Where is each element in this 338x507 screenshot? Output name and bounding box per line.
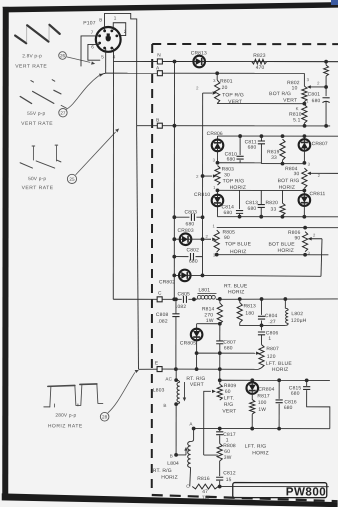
wire CR802 cathode to R806 wiper return bbox=[202, 274, 321, 277]
connector P107 pins bbox=[103, 29, 106, 32]
svg-text:R808: R808 bbox=[223, 443, 236, 449]
svg-text:1W: 1W bbox=[258, 407, 266, 413]
page border frame top bbox=[2, 2, 338, 13]
wire row A bbox=[106, 72, 158, 74]
svg-text:C812: C812 bbox=[223, 470, 236, 476]
wiper of R806 and return loop bbox=[310, 238, 323, 240]
wire A down to L804 bbox=[193, 429, 195, 440]
wire row E bbox=[138, 368, 157, 370]
svg-text:B: B bbox=[170, 454, 173, 459]
wire pin1 row of R/G horiz block bbox=[217, 189, 304, 191]
svg-text:90: 90 bbox=[224, 235, 230, 241]
svg-text:C801: C801 bbox=[308, 92, 321, 98]
page border frame left bbox=[2, 7, 9, 498]
svg-text:1: 1 bbox=[268, 336, 271, 342]
svg-text:.27: .27 bbox=[268, 319, 275, 325]
svg-text:CR805: CR805 bbox=[180, 341, 196, 347]
svg-text:CR807: CR807 bbox=[312, 141, 328, 147]
wire bottom row of R/G horiz section bbox=[217, 216, 338, 218]
svg-text:R806: R806 bbox=[288, 230, 301, 236]
svg-text:680: 680 bbox=[224, 210, 233, 216]
PW800 label box bbox=[233, 483, 327, 498]
svg-text:C806: C806 bbox=[266, 330, 279, 336]
node junction on row N bbox=[173, 60, 177, 64]
svg-text:680: 680 bbox=[248, 145, 257, 151]
svg-text:C815: C815 bbox=[289, 385, 302, 391]
svg-text:30: 30 bbox=[294, 171, 300, 177]
wire bottom row of blue horiz section bbox=[217, 254, 329, 256]
svg-text:R817: R817 bbox=[257, 393, 270, 399]
svg-text:R809: R809 bbox=[224, 383, 237, 389]
svg-text:120µH: 120µH bbox=[291, 318, 307, 324]
svg-text:HORIZ RATE: HORIZ RATE bbox=[48, 423, 83, 429]
svg-text:C816: C816 bbox=[284, 399, 297, 405]
svg-text:LFT.: LFT. bbox=[224, 396, 235, 402]
svg-text:25: 25 bbox=[69, 177, 75, 182]
svg-text:PW800: PW800 bbox=[286, 485, 327, 498]
svg-text:HORIZ: HORIZ bbox=[230, 249, 247, 255]
waveform 26 sawtooth 2.8V p-p vert rate bbox=[15, 25, 60, 44]
svg-text:680: 680 bbox=[227, 157, 236, 163]
svg-text:280V p-p: 280V p-p bbox=[55, 413, 76, 419]
svg-text:1W: 1W bbox=[206, 318, 214, 324]
wire top row of blue horiz section bbox=[217, 227, 338, 229]
svg-text:VERT: VERT bbox=[283, 98, 297, 104]
PW800 board dashed border bottom bbox=[152, 495, 338, 501]
svg-text:R823: R823 bbox=[253, 53, 266, 59]
wire top row of R/G horiz section bbox=[218, 135, 338, 137]
svg-text:L804: L804 bbox=[167, 461, 179, 467]
svg-text:R803: R803 bbox=[222, 167, 235, 173]
svg-text:90: 90 bbox=[295, 235, 301, 241]
svg-text:VERT: VERT bbox=[228, 99, 242, 105]
svg-text:270: 270 bbox=[204, 312, 213, 318]
svg-text:2.8V p-p: 2.8V p-p bbox=[22, 53, 42, 59]
wire row C continue bbox=[216, 298, 338, 301]
adjustment arrow of L803 bbox=[183, 382, 185, 398]
svg-text:C803: C803 bbox=[185, 210, 198, 216]
svg-text:7: 7 bbox=[91, 30, 94, 35]
wire pin B to terminal B via top box and down to terminal E bbox=[104, 13, 136, 125]
svg-text:R/G: R/G bbox=[224, 402, 234, 408]
svg-text:B: B bbox=[163, 403, 166, 408]
svg-text:B: B bbox=[156, 117, 159, 123]
svg-text:680: 680 bbox=[186, 221, 195, 227]
svg-text:100: 100 bbox=[258, 400, 267, 406]
svg-text:5: 5 bbox=[101, 54, 104, 59]
svg-text:CR802: CR802 bbox=[159, 279, 175, 285]
svg-text:P107: P107 bbox=[83, 20, 96, 26]
svg-text:R802: R802 bbox=[287, 80, 300, 86]
svg-text:L803: L803 bbox=[153, 387, 165, 393]
svg-text:C804: C804 bbox=[265, 313, 278, 319]
svg-text:55V p-p: 55V p-p bbox=[27, 111, 45, 117]
svg-text:680: 680 bbox=[224, 345, 233, 351]
svg-text:27: 27 bbox=[60, 110, 66, 115]
svg-text:180: 180 bbox=[245, 311, 254, 317]
svg-text:50V p-p: 50V p-p bbox=[28, 176, 46, 182]
wire row C bbox=[113, 298, 157, 300]
svg-text:3W: 3W bbox=[224, 455, 232, 461]
potentiometer R804 BOT R/G HORIZ bbox=[302, 168, 307, 188]
wire left rail taps bbox=[172, 215, 176, 219]
svg-text:TOP R/G: TOP R/G bbox=[223, 178, 245, 184]
svg-text:B: B bbox=[99, 17, 102, 22]
svg-text:680: 680 bbox=[312, 98, 321, 104]
callout circle 26 bbox=[59, 52, 67, 60]
svg-text:R805: R805 bbox=[223, 230, 236, 236]
svg-text:680: 680 bbox=[248, 206, 257, 212]
wire pin 5 down to row A bbox=[105, 48, 107, 73]
wiper of R807 from CR805 lead bbox=[197, 352, 256, 354]
wiper of R802 bbox=[308, 86, 326, 88]
svg-text:VERT: VERT bbox=[190, 382, 204, 388]
svg-text:HORIZ: HORIZ bbox=[272, 367, 289, 373]
svg-text:C808: C808 bbox=[156, 312, 169, 318]
svg-text:C: C bbox=[186, 484, 190, 489]
potentiometer R809 LFT R/G VERT bbox=[219, 369, 221, 384]
left vertical rail from N to C row bbox=[173, 62, 175, 300]
wiper of R805 bbox=[203, 238, 212, 240]
potentiometer R803 TOP R/G HORIZ bbox=[215, 166, 220, 186]
svg-text:L802: L802 bbox=[291, 311, 303, 317]
wiper of R809 bbox=[204, 391, 211, 455]
svg-text:R807: R807 bbox=[266, 346, 279, 352]
svg-text:HORIZ: HORIZ bbox=[228, 289, 245, 295]
svg-text:VERT RATE: VERT RATE bbox=[21, 121, 53, 127]
svg-text:47: 47 bbox=[202, 489, 208, 495]
svg-text:33: 33 bbox=[271, 155, 277, 161]
wire row 380 branch bbox=[220, 379, 330, 381]
callout arrow from 26 to connector bbox=[67, 57, 91, 63]
adjustment arrow of L804 bbox=[185, 450, 187, 455]
blue corner mark bbox=[331, 0, 338, 5]
wiper bus right column bbox=[201, 93, 203, 275]
wire pin 6 stub bbox=[88, 44, 100, 60]
svg-text:6: 6 bbox=[91, 44, 94, 49]
svg-text:HORIZ: HORIZ bbox=[252, 450, 269, 456]
svg-text:C807: C807 bbox=[223, 340, 236, 346]
svg-text:L801: L801 bbox=[198, 287, 210, 293]
svg-text:HORIZ: HORIZ bbox=[161, 475, 178, 481]
svg-text:BOT BLUE: BOT BLUE bbox=[269, 242, 296, 248]
PW800 board dashed border left bbox=[151, 44, 153, 494]
svg-text:R814: R814 bbox=[202, 306, 215, 312]
svg-text:CR806: CR806 bbox=[207, 131, 223, 137]
svg-text:680: 680 bbox=[291, 391, 300, 397]
potentiometer R806 BOT BLUE HORIZ bbox=[303, 232, 308, 252]
svg-text:CR811: CR811 bbox=[310, 191, 326, 197]
svg-text:RT. R/G: RT. R/G bbox=[153, 468, 172, 474]
callout circle 27 bbox=[59, 108, 67, 116]
svg-text:TOP BLUE: TOP BLUE bbox=[225, 241, 252, 247]
wiper of R803 bbox=[203, 175, 212, 177]
waveform 25 50V p-p vert rate bbox=[20, 145, 61, 168]
svg-text:C814: C814 bbox=[222, 204, 235, 210]
svg-text:.082: .082 bbox=[157, 319, 167, 325]
wire R813 bottom to C804 L802 junction bbox=[240, 323, 286, 326]
svg-text:60: 60 bbox=[225, 389, 231, 395]
svg-text:20: 20 bbox=[222, 85, 228, 91]
wire R807 bottom to E row bbox=[258, 368, 261, 370]
svg-text:VERT: VERT bbox=[222, 409, 236, 415]
svg-text:C811: C811 bbox=[245, 139, 257, 145]
svg-text:C813: C813 bbox=[246, 200, 259, 206]
svg-text:E: E bbox=[155, 360, 158, 366]
svg-text:BOT R/G: BOT R/G bbox=[278, 178, 300, 184]
svg-text:C817: C817 bbox=[223, 432, 236, 438]
svg-text:R820: R820 bbox=[266, 200, 279, 206]
svg-text:680: 680 bbox=[284, 405, 293, 411]
PW800 board dashed border top bbox=[152, 43, 338, 45]
callout arrow from 27 to pin 5 wire bbox=[66, 75, 99, 109]
svg-text:VERT RATE: VERT RATE bbox=[22, 185, 54, 191]
wire R823 continues to right edge bbox=[324, 60, 328, 64]
svg-text:1: 1 bbox=[226, 437, 229, 443]
wiper of R804 bbox=[309, 172, 338, 174]
svg-text:28: 28 bbox=[102, 415, 108, 420]
callout circle 25 bbox=[67, 174, 76, 183]
svg-text:BOT R/G: BOT R/G bbox=[269, 91, 291, 97]
callout circle 28 bbox=[100, 412, 109, 421]
wire row B bbox=[137, 125, 158, 127]
svg-text:120: 120 bbox=[267, 354, 276, 360]
wire bottom row to right bbox=[218, 486, 328, 488]
svg-text:680: 680 bbox=[189, 259, 198, 265]
svg-text:.082: .082 bbox=[176, 304, 186, 310]
svg-text:VERT RATE: VERT RATE bbox=[15, 64, 47, 70]
callout arrow from 28 to terminal E wire bbox=[108, 372, 135, 413]
svg-text:AC: AC bbox=[165, 376, 172, 381]
svg-text:R801: R801 bbox=[220, 79, 233, 85]
svg-text:1: 1 bbox=[114, 15, 117, 20]
connector P107 shell bbox=[96, 27, 121, 52]
callout arrow from 25 to pin connector wire bbox=[76, 132, 116, 175]
svg-text:K: K bbox=[296, 106, 299, 111]
svg-text:C: C bbox=[158, 290, 162, 296]
svg-text:TOP R/G: TOP R/G bbox=[222, 92, 244, 98]
svg-text:26: 26 bbox=[60, 53, 66, 58]
wire row N bbox=[114, 60, 158, 62]
wire pin 4 down to terminal C bbox=[112, 48, 114, 299]
node B below L803 bbox=[175, 404, 177, 455]
wire C811 R819 to node 3 row bbox=[261, 163, 304, 165]
unlabeled resistor above C801 bbox=[325, 62, 327, 65]
svg-text:470: 470 bbox=[256, 65, 265, 71]
svg-text:CR804: CR804 bbox=[258, 387, 274, 393]
resistor R810 bbox=[217, 103, 304, 105]
svg-text:R810: R810 bbox=[289, 112, 302, 118]
wire pin 1 to pin 2 loop bbox=[113, 23, 126, 36]
svg-text:10: 10 bbox=[292, 85, 298, 91]
svg-text:33: 33 bbox=[271, 207, 277, 213]
svg-text:R819: R819 bbox=[267, 149, 280, 155]
svg-text:15: 15 bbox=[226, 477, 232, 483]
svg-text:HORIZ: HORIZ bbox=[230, 185, 247, 191]
waveform 28 280V p-p horiz rate bbox=[44, 384, 103, 407]
connector P107 key bbox=[106, 33, 111, 41]
svg-text:1W: 1W bbox=[202, 495, 210, 501]
svg-text:R816: R816 bbox=[197, 476, 210, 482]
svg-text:60: 60 bbox=[224, 449, 230, 455]
svg-text:R813: R813 bbox=[243, 303, 256, 309]
junction row A to R801 bbox=[215, 71, 219, 75]
svg-text:N: N bbox=[157, 52, 161, 58]
wire pin 7 stub bbox=[81, 36, 99, 67]
svg-text:HORIZ: HORIZ bbox=[279, 185, 296, 191]
wiper of R801 bbox=[203, 92, 212, 94]
waveform 27 55V p-p vert rate bbox=[20, 80, 66, 108]
svg-text:C802: C802 bbox=[187, 247, 200, 253]
svg-text:LFT. R/G: LFT. R/G bbox=[245, 444, 267, 450]
svg-text:2: 2 bbox=[124, 29, 127, 34]
svg-text:5.1: 5.1 bbox=[293, 117, 300, 123]
svg-text:HORIZ: HORIZ bbox=[277, 248, 294, 254]
page border frame bottom bbox=[2, 493, 338, 507]
